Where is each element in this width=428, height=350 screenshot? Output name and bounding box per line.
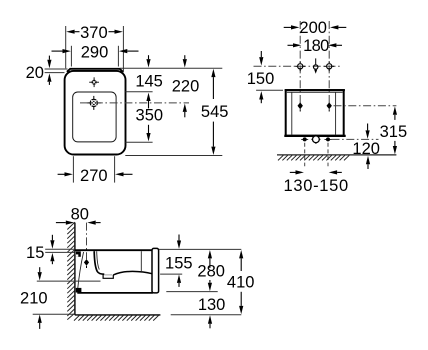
svg-text:180: 180 <box>303 37 329 55</box>
dimension 270 <box>58 156 133 185</box>
rear view: left fixing hole <box>295 61 305 71</box>
svg-text:210: 210 <box>20 290 48 308</box>
rear view: left drain fixing <box>301 137 308 141</box>
rear view: left drain axis dashed <box>304 143 306 167</box>
svg-text:155: 155 <box>165 255 193 273</box>
rear view: right lower fixing marker <box>327 102 332 111</box>
svg-text:20: 20 <box>26 64 44 82</box>
rear view: right side-wall line <box>335 92 337 135</box>
rear view: tank lid seam <box>287 91 343 93</box>
rear view: left side-wall line <box>291 92 293 135</box>
svg-text:80: 80 <box>71 205 89 223</box>
plan view: fixing hole symbol <box>89 77 99 87</box>
svg-text:15: 15 <box>26 244 44 262</box>
plan view: faucet hole symbol <box>87 96 101 110</box>
svg-text:130: 130 <box>198 296 226 314</box>
side view: floor line <box>75 314 160 316</box>
rear view: drain centreline to right <box>332 138 379 140</box>
rear view: water inlet symbol <box>314 58 318 73</box>
dimension 20 <box>26 56 68 85</box>
dimension 155 <box>160 235 192 287</box>
dimension 210 <box>20 267 100 329</box>
svg-text:145: 145 <box>135 72 163 90</box>
dimension 120 <box>352 124 380 170</box>
side view: rim top line <box>75 249 152 251</box>
dimension 80 <box>56 205 101 224</box>
side view: front face bar <box>152 248 159 293</box>
rear view: left hole axis vertical <box>299 21 301 103</box>
dimension 145 <box>125 55 162 108</box>
side view: floor hatching <box>74 315 159 320</box>
svg-text:410: 410 <box>227 274 255 292</box>
side view: front inner wall <box>140 251 142 272</box>
svg-text:280: 280 <box>197 263 225 281</box>
dimension 290 <box>52 43 139 66</box>
side view: fixing marker diamond <box>84 259 89 268</box>
plan view: inner basin outline <box>73 92 116 142</box>
side view: wall bracket <box>76 251 81 256</box>
side view: basin back wall inner surface <box>97 251 100 269</box>
side view: underside line <box>77 292 153 294</box>
plan view: rear rim edge with bevels <box>67 69 123 72</box>
rear view: tank outline <box>284 90 345 136</box>
svg-text:120: 120 <box>352 140 380 158</box>
dimension 220 <box>172 55 200 117</box>
rear view: right hole axis vertical <box>328 21 330 103</box>
rear view: right fixing hole <box>324 61 334 71</box>
dimension 130-150 <box>283 170 348 195</box>
plan view: faucet centreline <box>80 102 189 104</box>
dimension 180 <box>288 37 343 55</box>
side view: drain recess <box>103 274 113 278</box>
side view: hidden back surface <box>77 252 83 292</box>
rear view: ground line <box>277 154 396 156</box>
rear view: drain outlet <box>311 135 320 144</box>
svg-text:220: 220 <box>172 78 200 96</box>
rear view: right drain fixing <box>325 137 332 141</box>
dimension 370 <box>66 24 124 72</box>
rear view: ground hatching <box>278 155 349 160</box>
svg-text:315: 315 <box>380 123 408 141</box>
dimension 200 <box>284 19 347 37</box>
side view: wall face line <box>74 223 76 316</box>
svg-text:270: 270 <box>80 167 108 185</box>
side view: floor line left extension <box>33 313 75 315</box>
side view: top reference line <box>159 248 241 250</box>
side view: fixing axis dash-dot <box>86 223 88 260</box>
rear view: left lower fixing marker <box>298 102 303 111</box>
side view: basin back wall <box>94 251 104 274</box>
side view: wall hatching <box>67 222 75 320</box>
dimension 150 <box>247 51 283 103</box>
rear view: right drain axis dashed <box>327 143 329 167</box>
dimension 410 <box>171 250 255 315</box>
svg-text:370: 370 <box>80 24 108 42</box>
svg-text:200: 200 <box>299 19 327 37</box>
side view: basin floor line <box>113 271 152 275</box>
dimension 545 <box>120 68 228 155</box>
plan view: bidet body outline <box>65 71 126 155</box>
svg-text:545: 545 <box>201 103 229 121</box>
side view: rear foot <box>76 288 82 293</box>
dimension 15 <box>26 235 75 264</box>
svg-text:130-150: 130-150 <box>283 177 348 195</box>
dimension 315 <box>380 106 408 154</box>
dimension 130 <box>198 296 226 329</box>
rear view: fixing level centreline to right <box>334 105 397 107</box>
dimension 280 <box>166 250 225 292</box>
svg-text:290: 290 <box>81 43 109 61</box>
svg-text:350: 350 <box>136 107 164 125</box>
svg-text:150: 150 <box>247 70 275 88</box>
rear view: fixing holes centreline horizontal <box>254 65 342 67</box>
dimension 350 <box>125 107 163 143</box>
